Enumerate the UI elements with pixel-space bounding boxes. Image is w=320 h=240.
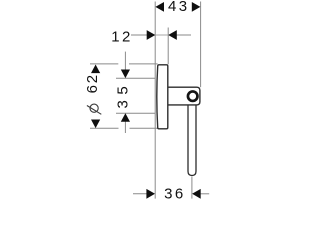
svg-text:3: 3 — [115, 98, 132, 109]
svg-text:43: 43 — [168, 0, 190, 15]
svg-text:2: 2 — [84, 72, 101, 83]
svg-text:6: 6 — [84, 83, 101, 94]
svg-text:5: 5 — [115, 84, 132, 95]
svg-text:36: 36 — [164, 185, 186, 200]
svg-text:12: 12 — [111, 28, 133, 45]
